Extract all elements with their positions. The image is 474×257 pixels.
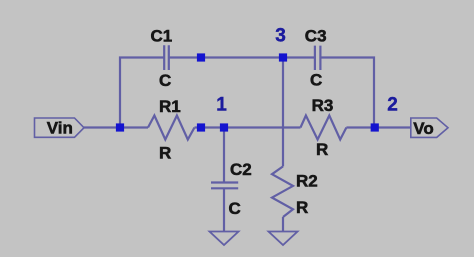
svg-text:R2: R2: [296, 172, 318, 191]
node number 1: [216, 94, 227, 115]
capacitor C2: [211, 183, 238, 189]
port tag Vin: [35, 118, 85, 138]
resistor R1: [148, 116, 195, 140]
svg-text:C3: C3: [305, 27, 327, 46]
resistor R2: [272, 166, 293, 217]
resistor R3: [301, 116, 347, 140]
svg-text:Vo: Vo: [413, 119, 433, 138]
svg-text:R3: R3: [312, 96, 334, 115]
svg-text:R: R: [316, 140, 328, 159]
node junction square top wire right of C1: [197, 53, 205, 61]
svg-text:2: 2: [387, 94, 398, 115]
port tag Vo: [411, 118, 448, 138]
svg-text:C: C: [310, 71, 322, 90]
wire: left vertical branch up from Vin junction: [120, 58, 164, 129]
node number 2: [387, 94, 398, 115]
svg-text:C: C: [159, 71, 171, 90]
svg-text:C: C: [229, 199, 241, 218]
svg-text:3: 3: [275, 25, 286, 46]
svg-text:Vin: Vin: [47, 119, 73, 138]
svg-text:1: 1: [216, 94, 227, 115]
label R3 value R: [316, 140, 328, 159]
wire: R1 to node 1: [195, 126, 301, 128]
svg-text:R: R: [296, 198, 308, 217]
capacitor C3: [315, 46, 321, 70]
wire: R2 to ground: [282, 217, 284, 232]
label C2 designator: [230, 160, 252, 179]
node 3 junction square: [279, 53, 287, 61]
label R1 value R: [159, 144, 171, 163]
wire: C1 to node 3: [169, 56, 315, 58]
node junction square at Vin branch: [116, 123, 124, 131]
wire: main horizontal input segment Vin to R1: [84, 126, 148, 128]
label C1 value C: [159, 71, 171, 90]
label C1 designator: [151, 27, 173, 46]
label R1 designator: [159, 97, 181, 116]
label R2 designator: [296, 172, 318, 191]
svg-text:R1: R1: [159, 97, 181, 116]
wire: R3 to node 2 and Vo: [346, 126, 410, 128]
svg-text:C2: C2: [230, 160, 252, 179]
svg-text:C1: C1: [151, 27, 173, 46]
label R3 designator: [312, 96, 334, 115]
label R2 value R: [296, 198, 308, 217]
label C3 designator: [305, 27, 327, 46]
wire: C3 right over to node 2: [320, 58, 374, 128]
label C3 value C: [310, 71, 322, 90]
capacitor C1: [164, 45, 169, 70]
ground (under C2): [210, 232, 239, 246]
node 1 junction square: [220, 123, 228, 131]
wire: C2 to ground: [223, 188, 225, 231]
label C2 value C: [229, 199, 241, 218]
node junction square right of R1: [197, 123, 205, 131]
svg-text:R: R: [159, 144, 171, 163]
wire: vertical branch node 3 down to R2: [282, 58, 284, 167]
ground (under R2): [269, 232, 298, 246]
wire: node 1 down to C2: [223, 128, 225, 183]
node 2 junction square: [371, 123, 379, 131]
node number 3: [275, 25, 286, 46]
